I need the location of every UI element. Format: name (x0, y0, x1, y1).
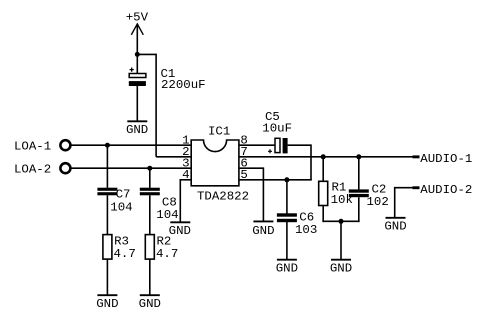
wire to pin 2 of IC1 (156, 156, 191, 158)
wire R3 to ground (106, 259, 108, 295)
wire pin 4 to ground (180, 179, 191, 222)
capacitor C5 (polarized 10uF) (268, 138, 288, 153)
ground GND (below R3) (96, 295, 118, 311)
node label AUDIO-1 (420, 152, 472, 166)
svg-text:GND: GND (126, 123, 148, 137)
svg-text:GND: GND (169, 224, 191, 238)
wire C1 to ground (136, 86, 138, 121)
wire pin 8 to C5 (239, 144, 275, 146)
svg-text:4.7: 4.7 (156, 247, 178, 261)
svg-text:104: 104 (156, 208, 178, 222)
wire +5V node to rail corner (137, 53, 156, 55)
junction pin7 / C2 (356, 154, 361, 159)
terminal LOA-2 (14, 163, 70, 177)
pin number 8 (240, 134, 247, 148)
wire LOA-1 to pin 1 (72, 144, 192, 146)
label R2 (157, 235, 172, 249)
wire LOA-2 to pin 3 (72, 167, 192, 169)
capacitor C7 (97, 188, 117, 196)
value label 10k (331, 193, 353, 207)
wire R2 to ground (149, 259, 151, 295)
pin number 2 (182, 145, 189, 159)
junction LOA-2 / C8 (147, 166, 152, 171)
svg-text:C7: C7 (116, 187, 131, 201)
svg-text:LOA-1: LOA-1 (14, 140, 51, 154)
ground GND (pin 4) (169, 222, 191, 238)
svg-text:AUDIO-2: AUDIO-2 (420, 183, 472, 197)
wire pin 6 to ground (239, 167, 264, 221)
wire pin 7 to AUDIO-1 (239, 156, 413, 158)
svg-text:103: 103 (295, 223, 317, 237)
value label 10uF (262, 122, 292, 136)
svg-text:AUDIO-1: AUDIO-1 (420, 152, 472, 166)
value label 2200uF (161, 78, 206, 92)
pin number 4 (182, 168, 189, 182)
wire AUDIO-2 lead (395, 187, 413, 218)
terminal LOA-1 (14, 140, 70, 154)
wire R1 bottom leg (322, 206, 324, 223)
value label 103 (295, 223, 317, 237)
svg-text:GND: GND (384, 220, 406, 234)
svg-text:GND: GND (330, 262, 352, 276)
wire node to ground (340, 221, 342, 259)
node AUDIO-2 pad (413, 186, 420, 189)
junction bottom node (339, 219, 344, 224)
wire C5 down leg to pin5 row (310, 144, 312, 179)
svg-text:2200uF: 2200uF (161, 78, 206, 92)
value label 104 (C8) (156, 208, 178, 222)
wire +5V node to C1 (136, 54, 138, 73)
svg-text:GND: GND (252, 224, 274, 238)
capacitor C6 (277, 213, 297, 222)
capacitor C8 (140, 188, 160, 196)
node label AUDIO-2 (420, 183, 472, 197)
junction pin5 / C6 (284, 177, 289, 182)
svg-text:GND: GND (139, 297, 161, 311)
svg-text:10uF: 10uF (262, 122, 292, 136)
value label 104 (C7) (110, 200, 132, 214)
junction pin7 / R1 (321, 154, 326, 159)
value label 102 (367, 195, 389, 209)
svg-text:4.7: 4.7 (114, 247, 136, 261)
svg-text:104: 104 (110, 200, 132, 214)
junction +5V node (135, 52, 140, 57)
capacitor C2 (349, 189, 369, 197)
resistor R2 (145, 235, 154, 260)
svg-text:GND: GND (96, 297, 118, 311)
wire LOA-2 node down to C8 (149, 168, 151, 188)
value label 4.7 (R2) (156, 247, 178, 261)
label C7 (116, 187, 131, 201)
label R1 (332, 181, 347, 195)
pin number 1 (182, 134, 189, 148)
junction LOA-1 / C7 (105, 143, 110, 148)
ground GND (below R2) (139, 295, 161, 311)
ground GND (below C1) (126, 121, 148, 137)
wire LOA-1 node down to C7 (106, 145, 108, 188)
label C6 (299, 211, 314, 225)
ground GND (AUDIO-2) (384, 218, 406, 234)
resistor R1 (319, 181, 328, 205)
ground GND (pin 6) (252, 221, 274, 238)
pin number 6 (240, 157, 247, 171)
wire C7 to R3 (106, 195, 108, 234)
wire C6 top leg (286, 180, 288, 214)
label C8 (162, 195, 177, 209)
op-amp IC U1 body TDA2822 (191, 140, 239, 186)
label C1 (161, 67, 176, 81)
wire C2 bottom leg (358, 197, 360, 222)
resistor R3 (103, 235, 112, 260)
label R3 (114, 235, 129, 249)
svg-text:102: 102 (367, 195, 389, 209)
pin number 3 (182, 157, 189, 171)
pin number 5 (240, 168, 247, 182)
label C5 (265, 110, 280, 124)
ground GND (below C6) (276, 260, 298, 276)
power +5V supply symbol (126, 11, 149, 55)
wire R1 top leg (322, 157, 324, 182)
svg-text:GND: GND (276, 261, 298, 275)
svg-text:TDA2822: TDA2822 (197, 190, 249, 204)
capacitor C1 (electrolytic, polarized) (129, 68, 146, 87)
svg-text:+5V: +5V (126, 11, 149, 25)
node AUDIO-1 pad (413, 155, 420, 158)
wire pin 5 (239, 179, 312, 181)
value label TDA2822 (197, 190, 249, 204)
pin number 7 (240, 145, 247, 159)
wire C5 right to corner (288, 144, 311, 146)
wire +5V rail down to pin2 row (155, 54, 157, 157)
value label 4.7 (R3) (114, 247, 136, 261)
ground GND (R1/C2 node) (330, 260, 352, 276)
label C2 (372, 183, 387, 197)
wire bottom node R1-C2 (322, 220, 359, 222)
svg-text:LOA-2: LOA-2 (14, 163, 51, 177)
wire C2 top leg (358, 157, 360, 190)
wire C8 to R2 (149, 195, 151, 234)
label IC1 (208, 125, 230, 139)
svg-text:IC1: IC1 (208, 125, 230, 139)
wire C6 to ground (286, 222, 288, 260)
